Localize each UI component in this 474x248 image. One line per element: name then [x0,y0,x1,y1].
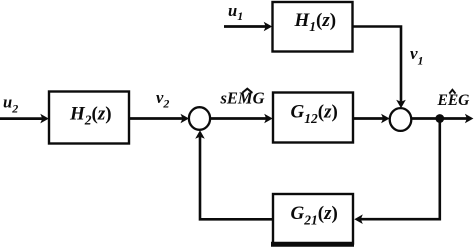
label sEMG [220,89,265,108]
label v1 [410,44,424,68]
wire H2 to S1 [129,114,189,124]
wire G21 output to S1 [195,130,273,219]
node EEG junction dot [435,114,444,123]
wire S2 to output [411,114,473,124]
svg-text:EEG: EEG [437,92,471,109]
wire G12 to S2 [353,114,390,124]
wire u1 input [224,22,272,32]
block H2 [49,92,129,144]
block G12 [273,93,353,143]
block G21 [271,194,354,244]
summing junction S1 [189,107,210,130]
summing junction S2 [390,108,412,131]
label u1 [228,1,243,23]
label u2 [3,93,18,116]
label EEG [437,90,471,109]
wire H1 output to S2 [353,27,406,109]
wire EEG node down to G21 [354,119,440,225]
wire S1 to G12 [210,114,273,124]
block H1 [273,2,353,52]
wire u2 input [0,114,49,124]
label v2 [156,88,169,111]
svg-text:sEMG: sEMG [220,89,265,108]
